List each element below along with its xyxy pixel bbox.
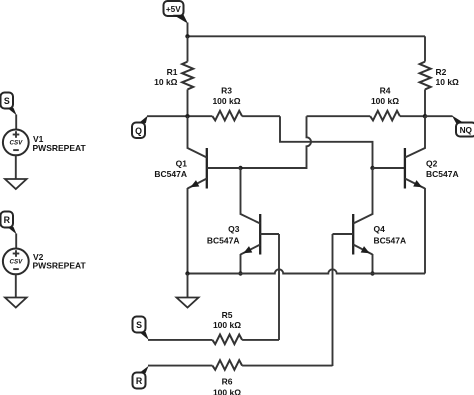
- node NQ: [423, 114, 427, 118]
- transistor Q1 BC547A (mirrored NPN): [154, 148, 240, 189]
- svg-text:R1: R1: [167, 67, 178, 77]
- wire +5V flag to top rail: [187, 23, 189, 37]
- source V2 PWSREPEAT: [3, 249, 87, 275]
- wire Q4 collector to Q2 base: [372, 168, 374, 215]
- svg-text:Q3: Q3: [228, 224, 240, 234]
- svg-text:CSV: CSV: [10, 140, 24, 147]
- node: top rail junction: [185, 34, 189, 38]
- net flag S (left): [1, 93, 17, 116]
- net flag Q: [132, 116, 148, 138]
- net flag R (left): [1, 212, 17, 235]
- wire top rail: [188, 35, 426, 37]
- svg-text:Q2: Q2: [426, 159, 438, 169]
- resistor R1 10 kΩ: [154, 36, 193, 116]
- resistor R2 10 kΩ: [420, 36, 459, 116]
- ground (rail): [177, 298, 199, 308]
- svg-text:R: R: [4, 215, 11, 225]
- resistor R3 100 kΩ: [212, 86, 280, 121]
- wire V1 to ground: [15, 155, 17, 179]
- net flag S (bottom): [133, 317, 149, 340]
- wire R flag to R6: [148, 365, 212, 367]
- wire Q4 emitter to rail: [372, 254, 374, 274]
- wire Q2 base: [373, 167, 405, 169]
- svg-text:CSV: CSV: [10, 259, 24, 266]
- svg-text:100 kΩ: 100 kΩ: [212, 96, 240, 106]
- wire Q1 base to R4 (cross-coupling, hops over R3 wire): [241, 116, 312, 168]
- svg-text:Q4: Q4: [374, 224, 386, 234]
- wire Q1 emitter to rail: [187, 188, 189, 274]
- svg-text:BC547A: BC547A: [207, 235, 240, 245]
- svg-text:R5: R5: [222, 310, 233, 320]
- node Q2 base junction: [370, 166, 374, 170]
- wire V2 to ground: [15, 274, 17, 297]
- svg-text:R: R: [136, 376, 143, 386]
- transistor Q2 BC547A (NPN): [405, 148, 459, 189]
- svg-text:R3: R3: [221, 86, 232, 96]
- wire R flag to V2: [15, 234, 17, 249]
- wire Q flag to R3: [147, 115, 212, 117]
- node Q4 emitter on rail: [370, 271, 374, 275]
- wire Q1 collector: [187, 116, 189, 149]
- svg-text:10 kΩ: 10 kΩ: [436, 77, 460, 87]
- transistor Q4 BC547A (NPN): [333, 214, 407, 255]
- power flag +5V: [164, 1, 189, 24]
- svg-text:S: S: [136, 320, 142, 330]
- svg-text:R2: R2: [436, 67, 447, 77]
- wire Q4 base down to R6: [332, 234, 334, 366]
- svg-text:Q: Q: [135, 126, 142, 136]
- wire Q2 emitter to rail: [424, 188, 426, 274]
- transistor Q3 BC547A (mirrored NPN): [207, 214, 279, 255]
- resistor R6 100 kΩ: [212, 360, 332, 395]
- ground (V2): [5, 298, 27, 308]
- wire Q3 emitter to rail: [240, 254, 242, 274]
- node rail ground junction: [185, 271, 189, 275]
- wire S flag to V1: [15, 115, 17, 130]
- source V1 PWSREPEAT: [3, 130, 87, 156]
- svg-text:NQ: NQ: [460, 125, 473, 135]
- node Q: [185, 114, 189, 118]
- svg-text:100 kΩ: 100 kΩ: [213, 320, 241, 330]
- wire emitter rail (hops over Q3/Q4 base wires): [188, 269, 426, 273]
- svg-text:100 kΩ: 100 kΩ: [213, 387, 241, 395]
- ground (V1): [5, 179, 27, 189]
- svg-text:PWSREPEAT: PWSREPEAT: [33, 261, 87, 271]
- svg-text:BC547A: BC547A: [374, 235, 407, 245]
- wire Q2 collector: [424, 116, 426, 149]
- wire Q3 collector to Q1 base: [240, 168, 242, 215]
- resistor R5 100 kΩ: [212, 310, 279, 344]
- svg-text:100 kΩ: 100 kΩ: [371, 96, 399, 106]
- svg-text:PWSREPEAT: PWSREPEAT: [33, 143, 87, 153]
- node Q3 emitter on rail: [238, 271, 242, 275]
- wire rail to ground: [187, 274, 189, 298]
- svg-text:10 kΩ: 10 kΩ: [154, 77, 178, 87]
- wire S flag to R5: [148, 339, 212, 341]
- svg-text:BC547A: BC547A: [154, 169, 187, 179]
- svg-text:Q1: Q1: [176, 159, 188, 169]
- svg-text:BC547A: BC547A: [426, 169, 459, 179]
- wire NQ node to flag: [425, 115, 453, 117]
- net flag R (bottom): [133, 366, 149, 389]
- wire Q3 base down to R5: [278, 234, 280, 340]
- svg-text:R6: R6: [222, 377, 233, 387]
- svg-text:+5V: +5V: [166, 5, 181, 14]
- resistor R4 100 kΩ: [307, 86, 426, 121]
- node Q1 base junction: [238, 166, 242, 170]
- wire R3 to Q2 base (cross-coupling): [280, 116, 373, 168]
- svg-text:R4: R4: [380, 86, 391, 96]
- svg-text:S: S: [4, 96, 10, 106]
- net flag NQ: [452, 116, 474, 137]
